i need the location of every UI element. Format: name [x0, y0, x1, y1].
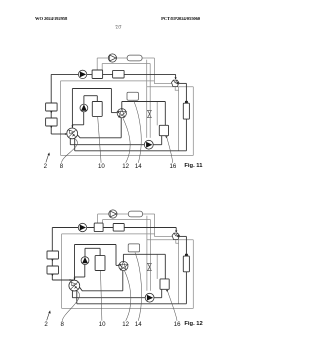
svg-text:8: 8: [60, 163, 64, 170]
svg-text:12: 12: [122, 163, 129, 170]
svg-text:14: 14: [135, 321, 142, 328]
svg-text:10: 10: [99, 321, 106, 328]
svg-text:PCT/EP2024/055060: PCT/EP2024/055060: [161, 16, 201, 21]
svg-text:12: 12: [122, 321, 129, 328]
svg-text:7/7: 7/7: [115, 26, 122, 31]
svg-text:10: 10: [98, 163, 105, 170]
svg-text:16: 16: [174, 321, 181, 328]
svg-text:WO 2024/192958: WO 2024/192958: [35, 16, 68, 21]
svg-text:16: 16: [170, 163, 177, 170]
svg-text:Fig. 11: Fig. 11: [184, 163, 203, 169]
svg-text:Fig. 12: Fig. 12: [184, 321, 202, 327]
svg-text:8: 8: [61, 321, 65, 328]
svg-text:14: 14: [135, 163, 142, 170]
